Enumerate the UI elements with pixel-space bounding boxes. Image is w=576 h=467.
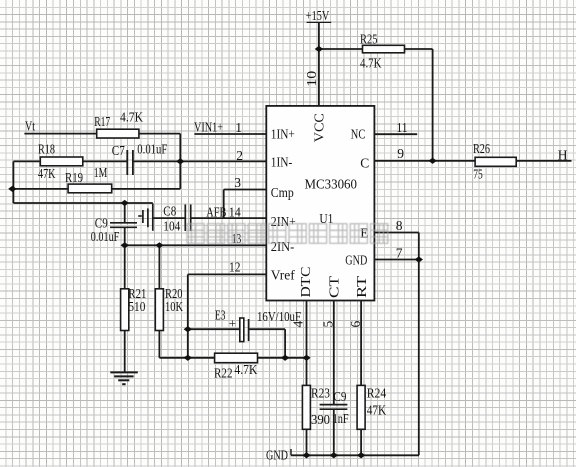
svg-text:12: 12 (229, 260, 241, 275)
svg-text:CT: CT (327, 275, 342, 298)
svg-text:4: 4 (290, 320, 305, 327)
svg-text:VCC: VCC (311, 113, 326, 142)
svg-text:R17: R17 (94, 114, 110, 129)
svg-text:DTC: DTC (298, 267, 313, 298)
svg-text:RT: RT (354, 275, 369, 298)
svg-text:1nF: 1nF (333, 411, 349, 426)
svg-text:Cmp: Cmp (271, 185, 294, 200)
svg-text:R24: R24 (367, 386, 387, 401)
svg-text:GND: GND (345, 252, 367, 267)
svg-text:R18: R18 (38, 142, 55, 157)
svg-text:Vt: Vt (25, 119, 35, 134)
svg-text:GND: GND (266, 448, 288, 463)
svg-text:H: H (558, 148, 568, 163)
svg-text:4.7K: 4.7K (360, 56, 382, 71)
svg-text:C7: C7 (112, 143, 125, 158)
svg-text:1M: 1M (94, 165, 108, 180)
svg-text:104: 104 (163, 219, 180, 234)
svg-text:R22: R22 (214, 366, 233, 381)
svg-text:75: 75 (473, 167, 483, 182)
svg-text:AFB: AFB (206, 205, 226, 220)
svg-text:2: 2 (236, 148, 243, 163)
svg-text:+: + (229, 316, 236, 331)
svg-text:+15V: +15V (306, 8, 330, 23)
svg-text:C9: C9 (333, 389, 346, 404)
svg-text:4.7K: 4.7K (120, 110, 143, 125)
svg-text:510: 510 (128, 299, 145, 314)
svg-text:1IN-: 1IN- (271, 155, 293, 170)
svg-text:47K: 47K (38, 166, 56, 181)
svg-text:R25: R25 (360, 32, 378, 47)
svg-text:8: 8 (396, 218, 403, 233)
svg-text:9: 9 (397, 146, 404, 161)
svg-text:0.01uF: 0.01uF (137, 142, 167, 157)
svg-text:3: 3 (234, 175, 241, 190)
svg-text:1IN+: 1IN+ (271, 126, 295, 141)
svg-text:E3: E3 (215, 308, 226, 323)
svg-text:10K: 10K (165, 299, 183, 314)
svg-text:R23: R23 (311, 386, 330, 401)
svg-text:R26: R26 (473, 141, 490, 156)
svg-text:R19: R19 (65, 170, 83, 185)
svg-text:390: 390 (311, 412, 330, 427)
svg-text:47K: 47K (367, 403, 387, 418)
svg-text:4.7K: 4.7K (234, 362, 257, 377)
svg-text:C: C (360, 156, 369, 171)
svg-text:MC33060: MC33060 (305, 176, 358, 191)
svg-text:2IN-: 2IN- (271, 239, 295, 254)
svg-text:10: 10 (304, 70, 319, 86)
svg-text:Vref: Vref (271, 267, 296, 282)
svg-text:C8: C8 (163, 204, 176, 219)
svg-text:NC: NC (351, 126, 366, 141)
svg-text:7: 7 (396, 246, 403, 261)
svg-text:14: 14 (229, 205, 241, 220)
svg-text:11: 11 (397, 120, 408, 135)
svg-text:5: 5 (321, 320, 336, 327)
svg-text:0.01uF: 0.01uF (91, 229, 120, 244)
svg-text:VIN1+: VIN1+ (194, 120, 223, 135)
svg-text:2IN+: 2IN+ (271, 214, 296, 229)
svg-text:1: 1 (235, 120, 242, 135)
svg-text:6: 6 (348, 320, 363, 327)
